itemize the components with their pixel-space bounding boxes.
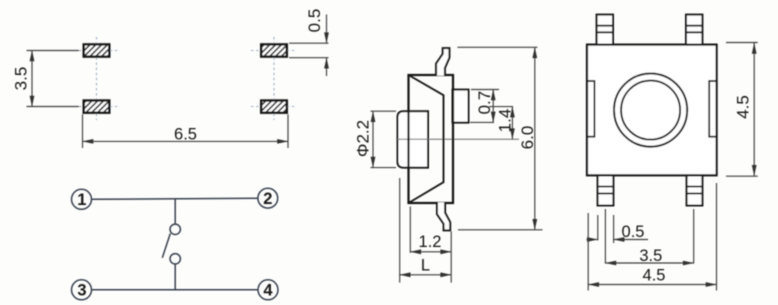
svg-text:0.5: 0.5 xyxy=(622,223,645,241)
svg-text:6.5: 6.5 xyxy=(174,126,197,144)
svg-text:1.4: 1.4 xyxy=(496,109,515,133)
svg-text:3.5: 3.5 xyxy=(639,247,662,265)
svg-text:6.0: 6.0 xyxy=(518,126,537,150)
svg-text:L: L xyxy=(421,257,430,275)
svg-text:2: 2 xyxy=(263,190,272,208)
svg-text:1: 1 xyxy=(77,191,86,209)
svg-text:4.5: 4.5 xyxy=(643,267,666,285)
svg-text:4.5: 4.5 xyxy=(734,95,753,119)
svg-text:0.5: 0.5 xyxy=(305,9,324,33)
svg-text:1.2: 1.2 xyxy=(419,233,442,251)
svg-text:3: 3 xyxy=(77,282,86,300)
svg-text:0.7: 0.7 xyxy=(475,91,494,115)
svg-text:4: 4 xyxy=(263,282,273,300)
svg-text:Φ2.2: Φ2.2 xyxy=(353,120,372,157)
svg-text:3.5: 3.5 xyxy=(12,67,31,91)
